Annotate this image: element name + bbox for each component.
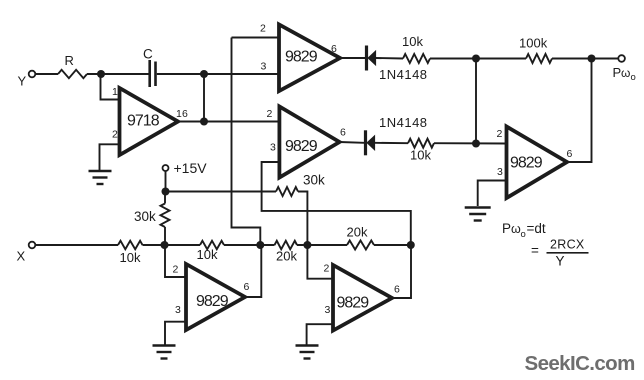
- U5 pin 3 wire to ground: [478, 181, 507, 207]
- ground G2: [153, 344, 176, 346]
- svg-text:Y: Y: [556, 254, 565, 269]
- wire +15V down to rail node: [165, 171, 167, 192]
- resistor 100k: [526, 54, 552, 63]
- svg-text:9829: 9829: [510, 155, 543, 172]
- node I junction: [303, 241, 311, 249]
- svg-text:3: 3: [175, 304, 181, 316]
- diode D1 1N4148: [365, 46, 368, 71]
- diode D2 1N4148: [364, 130, 367, 155]
- svg-text:6: 6: [394, 284, 400, 296]
- wire X to 10k: [35, 244, 118, 246]
- svg-text:9829: 9829: [285, 138, 318, 155]
- wire R to node A: [87, 73, 149, 75]
- node D junction: [472, 55, 480, 63]
- wire 30k down to node I: [298, 192, 307, 246]
- node J junction: [161, 241, 169, 249]
- resistor 20k (first): [275, 241, 298, 249]
- resistor 10k (second): [200, 241, 224, 249]
- U4 pin 2 wire up to node J: [165, 245, 186, 277]
- svg-text:o: o: [521, 229, 526, 240]
- svg-text:R: R: [65, 53, 74, 68]
- node E junction: [256, 241, 264, 249]
- U2 pin 2 wire: [232, 37, 280, 39]
- op-amp U4 9829 (bottom left): [186, 264, 245, 330]
- wire C to node B: [157, 73, 279, 75]
- wire to node E: [224, 244, 275, 246]
- svg-text:9718: 9718: [127, 113, 160, 130]
- svg-text:9829: 9829: [337, 295, 370, 312]
- svg-text:2: 2: [324, 263, 330, 275]
- wire node D to node G: [475, 59, 477, 144]
- svg-text:6: 6: [340, 127, 346, 139]
- svg-text:1N4148: 1N4148: [379, 67, 428, 82]
- svg-text:Y: Y: [18, 74, 27, 89]
- long wire: U2 pin2 + U4 output net, down and jog to node E: [232, 38, 261, 246]
- svg-text:ω: ω: [511, 222, 521, 236]
- wire to node J: [143, 244, 201, 246]
- U6 pin 3 wire to ground: [307, 324, 333, 344]
- op-amp U5 9829 (right): [507, 127, 568, 199]
- resistor 10k (row 1): [376, 57, 403, 60]
- svg-text:10k: 10k: [402, 34, 423, 49]
- svg-text:30k: 30k: [134, 209, 156, 224]
- wire node A down to 9718 pin 1: [101, 74, 120, 100]
- op-amp U3 9829 (middle): [279, 107, 339, 178]
- U4 pin 3 wire to ground: [165, 322, 186, 345]
- 9718 output pin 16 wire to node C / U3 pin 2: [178, 121, 279, 123]
- svg-text:ω: ω: [621, 66, 630, 80]
- svg-text:6: 6: [331, 43, 337, 55]
- resistor 10k (row 2): [375, 142, 408, 144]
- svg-text:2RCX: 2RCX: [550, 238, 585, 252]
- svg-text:10k: 10k: [410, 148, 431, 163]
- svg-text:P: P: [613, 65, 622, 80]
- input terminal X: [29, 242, 36, 249]
- resistor 20k (second): [347, 241, 374, 250]
- +15V terminal: [163, 165, 169, 171]
- op-amp U6 9829 (bottom right): [333, 265, 392, 331]
- svg-text:3: 3: [497, 166, 503, 178]
- U6 output wire up to node H: [392, 245, 411, 298]
- op-amp U1 9718: [120, 88, 179, 155]
- ground G1: [89, 170, 112, 172]
- wire rail to 30k: [166, 191, 277, 193]
- resistor 30k (horizontal): [276, 187, 298, 196]
- wire to node I: [297, 244, 347, 246]
- node C junction (9718 output): [200, 118, 208, 126]
- U5 output wire up to node F: [567, 59, 592, 163]
- wire 10k to node G: [434, 142, 507, 144]
- op-amp U2 9829 (top): [279, 25, 340, 92]
- ground G4: [465, 206, 491, 208]
- capacitor C: [148, 60, 151, 87]
- svg-text:2: 2: [267, 108, 273, 120]
- U6 pin 2 wire up to node I: [307, 245, 333, 279]
- svg-text:C: C: [143, 47, 153, 62]
- svg-text:3: 3: [261, 61, 267, 73]
- U3 output wire: [340, 141, 365, 144]
- svg-text:6: 6: [182, 108, 188, 120]
- svg-text:100k: 100k: [519, 36, 548, 51]
- svg-text:+15V: +15V: [174, 160, 208, 176]
- node G junction: [472, 140, 480, 148]
- svg-text:9829: 9829: [285, 49, 318, 66]
- svg-text:P: P: [502, 221, 511, 236]
- svg-text:1N4148: 1N4148: [379, 115, 428, 130]
- svg-text:20k: 20k: [276, 249, 297, 264]
- svg-text:3: 3: [270, 142, 276, 154]
- svg-text:10k: 10k: [197, 247, 218, 262]
- U4 output wire up to node E: [245, 245, 261, 297]
- wire node B to node C: [203, 74, 205, 122]
- svg-text:o: o: [631, 72, 636, 83]
- ground G3: [296, 344, 319, 346]
- svg-text:2: 2: [497, 128, 503, 140]
- svg-text:10k: 10k: [120, 250, 141, 265]
- resistor 30k (vertical): [161, 204, 170, 228]
- output terminal Pwo: [618, 55, 625, 62]
- svg-text:=: =: [531, 243, 539, 258]
- 9718 pin 2 wire to ground: [100, 144, 120, 170]
- U2 output wire: [340, 57, 365, 59]
- svg-text:6: 6: [244, 281, 250, 293]
- rail junction: [162, 188, 170, 196]
- svg-text:20k: 20k: [347, 225, 368, 240]
- node H junction: [407, 241, 415, 249]
- svg-text:6: 6: [567, 148, 573, 160]
- input terminal Y: [29, 71, 36, 78]
- node F junction: [588, 55, 596, 63]
- wire 100k to output node F: [552, 58, 618, 60]
- resistor R: [58, 70, 87, 78]
- svg-text:9829: 9829: [196, 293, 229, 310]
- wire to node H: [374, 244, 411, 246]
- svg-text:2: 2: [112, 129, 118, 141]
- wire Y to R: [35, 73, 58, 75]
- svg-text:2: 2: [173, 264, 179, 276]
- svg-text:=dt: =dt: [527, 221, 546, 236]
- svg-text:SeekIC.com: SeekIC.com: [525, 352, 635, 375]
- U3 pin 3 wire: jog down-right to node H: [262, 162, 411, 245]
- node A junction: [97, 70, 105, 78]
- wire 10k to node D: [430, 58, 526, 60]
- resistor 10k (X input): [118, 241, 143, 249]
- svg-text:X: X: [17, 249, 26, 264]
- node B junction: [200, 70, 208, 78]
- svg-text:3: 3: [325, 304, 331, 316]
- svg-text:2: 2: [260, 23, 266, 35]
- svg-text:1: 1: [112, 86, 118, 98]
- svg-text:30k: 30k: [303, 173, 325, 188]
